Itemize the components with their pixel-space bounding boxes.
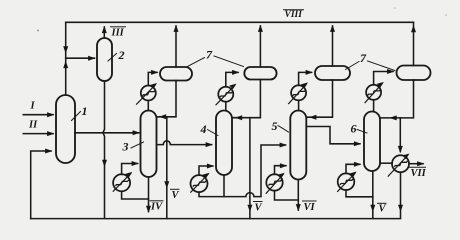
label 7 second leader right (to drum 7d) bbox=[368, 61, 396, 71]
coolant arrow condenser 5 bbox=[289, 84, 307, 103]
coolant arrow condenser 3 bbox=[137, 85, 156, 104]
wire: reboiler 3 return to column 3 bbox=[122, 164, 138, 175]
svg-text:6: 6 bbox=[351, 122, 357, 136]
drum 7c bbox=[315, 66, 350, 80]
svg-text:I: I bbox=[30, 101, 36, 112]
wire: header VIII top line bbox=[66, 21, 414, 23]
wire: condenser 5 to drum 7c bbox=[299, 72, 312, 85]
reboiler circle unit 3 bbox=[113, 174, 130, 191]
heating arrow reboiler 4 bbox=[191, 174, 208, 192]
wire: column 6 bottoms to reboiler 6 bbox=[346, 190, 373, 197]
wire: column 3 side draw to column 4 (hop over V line) bbox=[157, 141, 212, 145]
overline VI bbox=[303, 200, 317, 202]
paper speck artifacts bbox=[37, 30, 39, 32]
column 3 bbox=[141, 111, 157, 178]
svg-text:7: 7 bbox=[206, 48, 213, 62]
svg-text:1: 1 bbox=[82, 104, 88, 118]
column 6 bbox=[364, 112, 380, 172]
final cooler circle (VII) bbox=[392, 155, 409, 172]
wire: drum 7c reflux to column 5 bbox=[308, 80, 333, 117]
node: down arrow on left drop bbox=[63, 46, 68, 53]
overline IV bbox=[150, 200, 163, 202]
overline VII bbox=[410, 166, 426, 168]
wire: distillate branch V to collector (unit 3) bbox=[166, 117, 168, 219]
node: down arrow on vessel 2 bottoms line bbox=[102, 160, 107, 167]
wire: reboiler 4 return to column 4 bbox=[199, 166, 213, 175]
wire: vessel 2 bottoms down to collector (hop over feed line) bbox=[103, 81, 104, 218]
vessel 1 bbox=[56, 95, 75, 163]
wire: reboiler 6 return to column 6 bbox=[346, 164, 360, 173]
svg-text:5: 5 bbox=[272, 119, 278, 133]
svg-text:V: V bbox=[379, 204, 387, 215]
wire: recycle from collector into vessel 1 bbox=[31, 151, 51, 219]
wire: condenser 6 to drum 7d bbox=[374, 72, 393, 85]
svg-text:V: V bbox=[255, 203, 263, 214]
svg-text:II: II bbox=[28, 120, 38, 131]
wire: column 5 bottoms to reboiler 5 bbox=[275, 191, 299, 200]
svg-text:V: V bbox=[172, 190, 180, 201]
wire: cooler bottoms to collector bbox=[400, 172, 402, 218]
wire: column 5 side draw to column 6 bbox=[307, 127, 360, 144]
label 1 leader bbox=[72, 112, 81, 121]
heating arrow reboiler 3 bbox=[113, 174, 131, 192]
node: up arrow on left drop bbox=[63, 61, 68, 68]
wire: column 5 top to condenser bbox=[298, 100, 300, 110]
svg-text:VIII: VIII bbox=[285, 10, 303, 20]
node: arrow into vessel 2 bbox=[88, 56, 95, 61]
wire: column 4 top to condenser bbox=[225, 102, 227, 111]
overline V unit4 bbox=[254, 201, 263, 203]
wire: column 6 to cooler bbox=[380, 162, 392, 164]
wire: stream II into vessel 1 bbox=[23, 133, 53, 135]
reboiler circle unit 6 bbox=[338, 173, 355, 190]
wire: column 3 top to condenser bbox=[147, 101, 149, 111]
wire: drum 7d reflux to column 6 bbox=[381, 80, 414, 118]
wire: branch into vessel 2 left bbox=[66, 57, 95, 59]
vessel 2 bbox=[97, 38, 112, 81]
wire: column 5 bottom product VI bbox=[297, 180, 299, 211]
label 7 leader left (to drum 7a) bbox=[188, 58, 205, 67]
wire: column 4 bottoms via reboiler, up to column 5 feed (hop over V line) bbox=[199, 145, 286, 197]
label 7 leader right (to drum 7b) bbox=[214, 56, 244, 67]
svg-text:VI: VI bbox=[304, 202, 316, 213]
coolant arrow condenser 6 bbox=[365, 84, 382, 103]
column 5 bbox=[290, 111, 306, 180]
svg-text:III: III bbox=[111, 28, 125, 39]
condenser circle unit 6 bbox=[366, 85, 381, 100]
label 3 leader bbox=[131, 142, 144, 148]
overline V unit3 bbox=[171, 188, 180, 190]
coolant arrow cooler bbox=[388, 155, 408, 176]
reboiler circle unit 5 bbox=[266, 174, 282, 190]
label 4 leader bbox=[208, 130, 219, 136]
overline VIII bbox=[284, 9, 304, 11]
drum 7d bbox=[397, 66, 431, 81]
reboiler circle unit 4 bbox=[191, 175, 208, 192]
wire: left drop from header to vessel 1 top bbox=[65, 22, 67, 95]
wire: cooler outlet VII bbox=[409, 163, 423, 165]
overline III bbox=[111, 26, 126, 28]
wire: condenser 3 to drum 7a bbox=[148, 72, 157, 85]
coolant arrow condenser 4 bbox=[216, 85, 235, 104]
heating arrow reboiler 6 bbox=[338, 173, 355, 191]
svg-text:VII: VII bbox=[411, 168, 427, 179]
wire: bottom collector line bbox=[31, 218, 401, 220]
label 2 leader bbox=[108, 54, 117, 62]
wire: drum 7b reflux to column 4 bbox=[233, 80, 260, 118]
drum 7a bbox=[160, 67, 192, 81]
heating arrow reboiler 5 bbox=[266, 174, 283, 193]
wire: vessel 1 overhead feed to column 3 bbox=[75, 132, 139, 134]
drum 7b bbox=[244, 67, 276, 80]
svg-text:IV: IV bbox=[150, 202, 163, 213]
wire: condenser 4 to drum 7b bbox=[226, 72, 238, 86]
wire: column 4 downpipe bbox=[223, 175, 225, 197]
wire: reboiler 5 return to column 5 bbox=[275, 166, 286, 175]
wire: drum 7c riser to header bbox=[332, 26, 334, 66]
wire: column 3 bottoms to reboiler 3 bbox=[122, 191, 149, 199]
wire: stream I into vessel 1 bbox=[23, 114, 53, 116]
wire: vessel 2 top outlet III bbox=[103, 27, 105, 38]
column 4 bbox=[216, 111, 232, 176]
condenser circle unit 4 bbox=[218, 87, 233, 102]
wire: drum 7d riser to header (right end) bbox=[413, 22, 415, 65]
wire: distillate branch V to collector (unit 4) bbox=[249, 118, 251, 219]
svg-text:3: 3 bbox=[122, 140, 129, 154]
condenser circle unit 5 bbox=[291, 85, 306, 100]
label 5 leader bbox=[278, 126, 289, 133]
overline V unit6 bbox=[378, 202, 387, 204]
wire: drum 7a riser to header bbox=[175, 26, 177, 67]
wire: column 6 bottoms V to collector bbox=[372, 171, 374, 218]
wire: column 3 bottom product IV bbox=[148, 177, 150, 212]
label 6 leader bbox=[357, 130, 367, 134]
wire: drum 7b riser to header bbox=[259, 26, 261, 67]
condenser circle unit 3 bbox=[141, 86, 156, 101]
wire: drum 7a reflux to column 3 bbox=[158, 81, 177, 117]
wire: column 6 top to condenser bbox=[373, 100, 375, 112]
svg-text:7: 7 bbox=[360, 51, 367, 65]
wire: branch to final cooler bbox=[399, 118, 401, 152]
svg-text:2: 2 bbox=[118, 48, 125, 62]
label 7 second leader left (to drum 7c) bbox=[346, 62, 360, 70]
svg-text:4: 4 bbox=[200, 122, 207, 136]
